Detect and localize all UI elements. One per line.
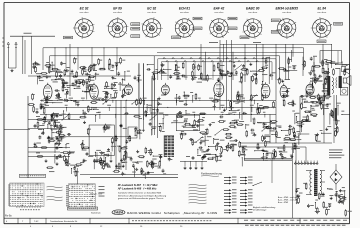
capacitor [121, 172, 124, 176]
resistor [206, 128, 208, 135]
wire [337, 105, 339, 115]
legend row 5 wire colour symbols [224, 193, 253, 195]
capacitor [105, 92, 109, 95]
resistor [119, 145, 121, 152]
wire [301, 123, 303, 132]
wire [176, 95, 178, 106]
wire [298, 133, 309, 135]
wire into grid2 [77, 168, 79, 184]
wire vertical [333, 95, 335, 143]
ground [195, 166, 198, 169]
resistor [306, 91, 308, 98]
wire stub [45, 100, 47, 103]
cursive annotation between grids [47, 186, 63, 188]
wire [93, 161, 95, 169]
resistor [45, 64, 52, 66]
ground [45, 75, 48, 78]
wire drop [54, 48, 56, 70]
capacitor [100, 151, 103, 155]
resistor [87, 128, 89, 135]
capacitor [117, 72, 120, 76]
resistor [44, 116, 46, 123]
electrolytic block [334, 108, 337, 121]
resistor [90, 102, 97, 104]
capacitor [68, 151, 71, 155]
tube V8 EL84 output [306, 82, 314, 95]
resistor [311, 114, 318, 116]
ground [135, 168, 138, 171]
wire [54, 144, 56, 153]
resistor [74, 57, 76, 64]
resistor [220, 74, 227, 76]
switch contact arm [88, 65, 95, 71]
wire [336, 191, 338, 201]
capacitor [181, 75, 185, 78]
capacitor [125, 140, 128, 144]
wire [31, 36, 33, 74]
resistor [314, 65, 321, 67]
svg-text:A-xx - NNN - xxx Lage: A-xx - NNN - xxx Lage [277, 196, 299, 199]
capacitor [344, 69, 347, 73]
wire [287, 70, 297, 72]
legend row 1 wire colour symbols [224, 177, 253, 179]
wire [151, 130, 153, 136]
wire [251, 70, 260, 72]
capacitor [106, 165, 110, 168]
capacitor [85, 153, 89, 156]
resistor [288, 58, 290, 65]
wire stub [115, 114, 117, 118]
wire drop [103, 48, 105, 70]
wire stub [66, 107, 68, 111]
wire [335, 184, 337, 190]
resistor [79, 116, 86, 118]
legend row 8 wire colour symbols [224, 202, 253, 204]
svg-text:EL 84: EL 84 [317, 7, 326, 11]
tube V1 triode EC92 [44, 83, 53, 100]
wire [174, 65, 176, 71]
resistor [270, 121, 277, 123]
wire antenna join [8, 67, 16, 69]
resistor [133, 115, 140, 117]
capacitor [33, 65, 36, 69]
capacitor [60, 127, 63, 131]
ground [207, 148, 210, 151]
wire stub [175, 100, 177, 103]
wire [255, 150, 268, 152]
resistor [75, 170, 77, 177]
resistor [65, 158, 67, 165]
ground antenna [11, 69, 14, 72]
capacitor [34, 124, 37, 128]
wire [244, 151, 246, 160]
wire stub [193, 114, 195, 118]
wire [234, 101, 244, 103]
wire [328, 188, 332, 190]
wire [201, 161, 203, 166]
resistor R5 [36, 119, 43, 121]
ground [330, 197, 333, 200]
resistor [120, 147, 127, 149]
wire [63, 111, 65, 119]
wire vertical [322, 44, 324, 68]
wire [195, 124, 205, 126]
capacitor [217, 78, 220, 82]
wire vertical [222, 44, 224, 62]
resistor [258, 70, 265, 72]
capacitor [156, 108, 159, 112]
wire [303, 121, 310, 123]
wire rail B corner [49, 56, 51, 72]
resistor [123, 89, 125, 96]
ground [233, 64, 236, 67]
wire rail A [43, 47, 304, 49]
svg-text:RADIO-WERKE GmbH Schaltplan: RADIO-WERKE GmbH Schaltplan „Meersburg-W… [127, 211, 217, 215]
wire [28, 119, 80, 121]
resistor [283, 99, 285, 106]
wire [310, 106, 312, 116]
wire [312, 78, 314, 88]
wire [213, 139, 215, 144]
resistor [301, 119, 308, 121]
svg-text:A-xx - NNN - xxx Lage: A-xx - NNN - xxx Lage [277, 199, 299, 202]
resistor [312, 65, 314, 72]
resistor [284, 138, 291, 140]
wire [139, 130, 141, 140]
resistor [287, 103, 294, 105]
capacitor [125, 112, 129, 115]
capacitor [105, 163, 109, 166]
antenna symbol A2 [15, 42, 17, 68]
wire component row left [28, 75, 131, 77]
wire stub [99, 114, 101, 119]
wire [322, 105, 324, 115]
wire [110, 152, 112, 159]
wire stub [243, 100, 245, 103]
resistor [180, 133, 187, 135]
ground [136, 150, 139, 153]
svg-text:ECH 81: ECH 81 [179, 7, 190, 11]
capacitor [55, 94, 59, 97]
wire vertical [154, 78, 156, 120]
wire [28, 155, 70, 157]
capacitor [134, 76, 137, 80]
wire rail corner right [303, 48, 305, 70]
wire [282, 100, 284, 106]
resistor [278, 68, 285, 70]
resistor [336, 118, 338, 125]
capacitor [78, 81, 81, 85]
capacitor [72, 82, 75, 86]
resistor [232, 145, 234, 152]
resistor [289, 128, 291, 135]
resistor [150, 149, 152, 156]
capacitor [56, 156, 59, 160]
wire [103, 152, 105, 159]
resistor [82, 68, 84, 75]
switch assembly dark cluster [164, 135, 174, 157]
legend row 9 wire colour symbols [224, 205, 253, 207]
wire rail A corner [42, 48, 44, 70]
capacitor [113, 83, 116, 87]
wire [270, 121, 272, 126]
wire bottom rail 2 [90, 176, 178, 178]
capacitor [162, 169, 165, 173]
ground [160, 68, 163, 71]
resistor [146, 160, 148, 167]
resistor [324, 96, 331, 98]
resistor [125, 151, 127, 158]
resistor [151, 161, 153, 168]
transformer primary winding [310, 171, 312, 175]
capacitor [178, 96, 181, 100]
resistor [323, 72, 330, 74]
capacitor [283, 69, 287, 72]
ground [111, 76, 114, 79]
transformer secondary winding [320, 171, 322, 175]
resistor [175, 64, 177, 71]
wire [51, 71, 62, 73]
capacitor [34, 145, 38, 148]
ground [34, 61, 37, 64]
resistor [106, 91, 108, 98]
wire [144, 173, 146, 179]
resistor [298, 197, 300, 204]
resistor [32, 63, 39, 65]
resistor [293, 127, 295, 134]
wire vertical [138, 63, 140, 98]
capacitor [66, 90, 69, 94]
resistor [40, 147, 47, 149]
tube socket diagram V3 EC 92 [142, 7, 163, 38]
resistor [257, 107, 259, 114]
wire [124, 72, 126, 81]
resistor [225, 146, 232, 148]
tube pin label box [271, 31, 280, 34]
resistor R6 [36, 156, 43, 158]
legend row 2 wire colour symbols [224, 180, 253, 182]
capacitor [242, 112, 246, 115]
wire [227, 143, 229, 148]
resistor [173, 73, 180, 75]
resistor [152, 162, 154, 169]
resistor [118, 163, 120, 170]
legend row 3 wire colour symbols [224, 183, 253, 185]
resistor [113, 171, 120, 173]
wire [71, 100, 76, 102]
wire stub [144, 100, 146, 105]
capacitor [56, 146, 59, 150]
resistor [64, 155, 66, 162]
capacitor [250, 129, 254, 132]
wire AVC bus [40, 99, 276, 101]
resistor [311, 101, 318, 103]
legend row 7 wire colour symbols [224, 198, 253, 200]
wire [320, 170, 325, 172]
resistor [148, 163, 155, 165]
resistor [145, 147, 147, 154]
resistor [64, 69, 66, 76]
svg-text:EAF 42: EAF 42 [213, 7, 224, 11]
wire stub [108, 107, 110, 111]
resistor [238, 94, 240, 101]
switch contact arm [262, 126, 269, 132]
resistor [35, 66, 37, 73]
wire [54, 155, 56, 164]
wire vertical [331, 44, 333, 68]
grid2 footer box [68, 207, 98, 210]
wire vertical [154, 76, 156, 135]
wire [214, 95, 216, 105]
wire vertical [292, 44, 294, 57]
resistor [261, 157, 268, 159]
ground [107, 148, 110, 151]
tube V3 [125, 83, 133, 95]
capacitor [35, 111, 39, 114]
legend row 11 wire colour symbols [224, 212, 253, 214]
resistor [323, 201, 325, 208]
capacitor [63, 99, 67, 102]
svg-text:A-xx - NNN: A-xx - NNN [277, 201, 289, 204]
capacitor [120, 124, 123, 128]
capacitor [269, 74, 273, 77]
resistor [262, 106, 269, 108]
capacitor [273, 127, 277, 130]
tube pin label box [271, 19, 280, 22]
capacitor [201, 156, 204, 160]
resistor [333, 68, 335, 75]
wire [47, 125, 49, 129]
tube socket diagram V5 EAF 42 [210, 7, 229, 38]
resistor [176, 116, 183, 118]
legend row 6 wire colour symbols [224, 196, 253, 198]
wire bus3 [40, 113, 276, 115]
wire [335, 164, 337, 170]
resistor [238, 150, 240, 157]
wire [284, 139, 295, 141]
resistor [279, 77, 281, 84]
resistor [261, 67, 268, 69]
ground [209, 123, 212, 126]
capacitor [115, 63, 118, 67]
resistor [304, 60, 306, 67]
wire [68, 154, 70, 162]
resistor [46, 96, 48, 103]
ground [77, 103, 80, 106]
capacitor [168, 157, 171, 161]
ground [45, 159, 48, 162]
wire [183, 92, 185, 96]
resistor [145, 110, 147, 117]
wire [184, 126, 195, 128]
resistor [123, 154, 125, 161]
capacitor [65, 99, 69, 102]
grid1 row labels [8, 184, 10, 187]
resistor [332, 110, 334, 117]
rectifier bridge [330, 170, 342, 184]
resistor [322, 67, 324, 74]
svg-text:von oben: von oben [113, 12, 123, 14]
resistor [58, 134, 65, 136]
resistor [129, 135, 131, 142]
wire [209, 146, 217, 148]
resistor [273, 101, 275, 108]
tube V5 EAF42 [214, 80, 224, 97]
wire [115, 66, 117, 75]
capacitor [337, 195, 341, 198]
wire [184, 161, 186, 166]
capacitor [149, 122, 152, 126]
voltage selector connector strip [294, 161, 318, 165]
wire vertical [262, 44, 264, 82]
antenna symbol A1 [7, 42, 9, 68]
wire [28, 128, 60, 130]
coil bumps in shield box [163, 58, 165, 59]
capacitor [230, 72, 233, 76]
wire [67, 162, 69, 167]
capacitor [83, 159, 86, 163]
resistor [259, 107, 261, 114]
ground [201, 166, 204, 169]
resistor [86, 82, 88, 89]
wire [320, 194, 325, 196]
wire [304, 101, 314, 103]
wire vertical [120, 100, 122, 170]
wire [273, 150, 275, 160]
wire [301, 99, 303, 105]
wire drop [116, 48, 118, 70]
wire [22, 36, 24, 74]
wire vertical [219, 40, 221, 110]
wire [327, 64, 329, 70]
ground [115, 165, 118, 168]
resistor [212, 100, 219, 102]
wire [82, 110, 84, 115]
ground [110, 159, 113, 162]
capacitor [203, 155, 207, 158]
wire [164, 68, 172, 70]
wire top connector [220, 43, 332, 45]
power transformer T1 core [313, 169, 318, 196]
capacitor [75, 80, 78, 84]
capacitor [266, 152, 269, 156]
resistor [213, 65, 215, 72]
border frame left [3, 3, 5, 224]
resistor [289, 139, 296, 141]
resistor [54, 121, 56, 128]
tube socket diagram V1 EC 92 [73, 7, 94, 39]
resistor [305, 183, 307, 190]
capacitor [184, 103, 188, 106]
wire [51, 131, 53, 140]
ground [158, 97, 161, 100]
resistor [304, 111, 311, 113]
capacitor [67, 133, 71, 136]
capacitor [130, 157, 133, 161]
capacitor [294, 146, 297, 150]
wire [299, 96, 301, 135]
wire [311, 83, 313, 91]
resistor [265, 127, 272, 129]
wire drop [212, 62, 214, 80]
wire vertical [125, 100, 127, 170]
wire drop [176, 62, 178, 80]
wire [24, 40, 26, 74]
capacitor [307, 204, 310, 208]
ground [122, 165, 125, 168]
capacitor [177, 75, 180, 79]
ground [219, 72, 222, 75]
